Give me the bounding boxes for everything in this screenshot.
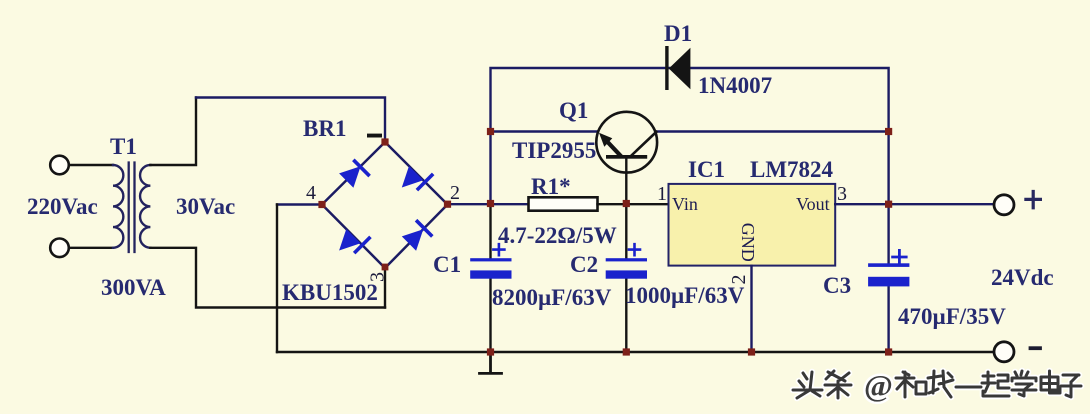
wire right rail upper [887,132,889,264]
capacitor C1 wire lower [489,279,491,352]
bridge diode lower-right [402,219,434,251]
svg-text:T1: T1 [110,134,137,159]
svg-text:IC1: IC1 [688,157,725,182]
transistor Q1 body [596,112,657,173]
wire primary bottom lead [70,247,114,249]
wire left drop down [276,205,278,353]
node bottom GND stub [748,348,755,355]
bridge diode upper-left [339,159,371,188]
bridge polarity dash [367,134,382,138]
watermark 头条@和我一起学电子 [793,371,1081,398]
capacitor C2 plus [629,244,640,255]
capacitor C1 wire upper [489,204,491,259]
wire bottom rail [277,351,995,353]
node rail C2 base [623,200,630,207]
node bottom C1 [487,348,494,355]
wire IC GND stub [750,266,752,352]
svg-text:C1: C1 [433,252,461,277]
node rail C1 [487,200,494,207]
svg-text:R1*: R1* [531,174,571,199]
node bridge right pin2 [444,201,451,208]
svg-text:Vin: Vin [672,194,698,214]
svg-text:KBU1502: KBU1502 [282,280,378,305]
capacitor C1 plates [470,258,511,278]
resistor R1 [529,197,598,210]
svg-text:2: 2 [450,182,460,204]
svg-text:300VA: 300VA [101,275,166,300]
transistor Q1 collector stroke [632,132,657,156]
wire primary top lead [70,164,114,166]
svg-text:D1: D1 [664,21,692,46]
wire secondary top to bridge [196,98,385,143]
node Q1 emitter junction [487,128,494,135]
bridge diode upper-right [402,166,435,191]
wire node2 to R1 [448,203,529,205]
svg-text:GND: GND [738,223,758,262]
svg-text:470µF/35V: 470µF/35V [898,304,1006,329]
svg-text:4.7-22Ω/5W: 4.7-22Ω/5W [498,223,617,248]
svg-text:Q1: Q1 [559,98,588,123]
wire Q1 emitter feed [491,130,597,132]
capacitor C1 plus [493,244,504,255]
wire Q1 collector to right rail [657,130,889,132]
svg-text:TIP2955: TIP2955 [512,138,596,163]
wire R1 to node [598,203,669,205]
svg-text:24Vdc: 24Vdc [991,265,1054,290]
node bottom C3 [885,348,892,355]
output minus sign [1031,346,1041,350]
bridge BR1 diamond [322,142,448,268]
svg-text:8200µF/63V: 8200µF/63V [492,285,612,310]
svg-text:1N4007: 1N4007 [698,73,772,98]
wire right rail lower [887,287,889,352]
svg-text:1000µF/63V: 1000µF/63V [625,283,745,308]
diode D1 [665,46,690,90]
svg-text:Vout: Vout [796,194,830,214]
wire secondary top lead [150,98,196,166]
svg-text:LM7824: LM7824 [750,157,834,182]
svg-text:C3: C3 [823,273,851,298]
svg-text:220Vac: 220Vac [27,194,98,219]
node junction squares [318,128,892,356]
wire Q1 base down [625,159,627,204]
node bottom C2 [623,348,630,355]
svg-text:30Vac: 30Vac [176,194,235,219]
output terminal minus [994,342,1014,362]
svg-text:BR1: BR1 [303,116,346,141]
regulator IC1 body [669,184,836,266]
node Q1 collector junction [885,128,892,135]
svg-text:@: @ [864,368,893,403]
svg-text:4: 4 [306,182,316,204]
capacitor C2 wire upper [625,204,627,259]
node bridge bottom pin3 [382,264,389,271]
node bridge top [381,138,388,145]
capacitor C2 wire lower [625,279,627,352]
wire node4 to left drop [277,203,322,205]
transformer T1 primary winding [113,165,123,248]
transistor Q1 base bar [606,155,647,159]
node bridge left pin4 [318,201,325,208]
capacitor C3 plus [893,250,907,262]
transformer T1 primary terminal bottom [50,239,69,258]
transformer T1 secondary winding [140,165,150,248]
svg-text:1: 1 [657,183,667,205]
bridge diode lower-left [339,229,372,254]
wire top rail (D1 wire) [491,68,889,204]
ground [480,352,502,373]
svg-text:2: 2 [728,275,750,285]
wire secondary bottom lead [150,248,385,308]
output plus sign [1026,192,1041,208]
transformer T1 primary terminal top [50,156,69,175]
svg-text:3: 3 [837,183,847,205]
svg-text:C2: C2 [570,252,598,277]
wire bridge node3 drop [384,268,386,308]
wire Vout to output [835,203,995,205]
node rail Vout [885,201,892,208]
svg-text:3: 3 [367,272,389,282]
capacitor C3 plates [868,263,909,286]
transistor Q1 emitter arrow [599,133,612,147]
output terminal plus [994,195,1014,215]
transformer T1 core [129,163,135,253]
capacitor C2 plates [606,258,647,278]
